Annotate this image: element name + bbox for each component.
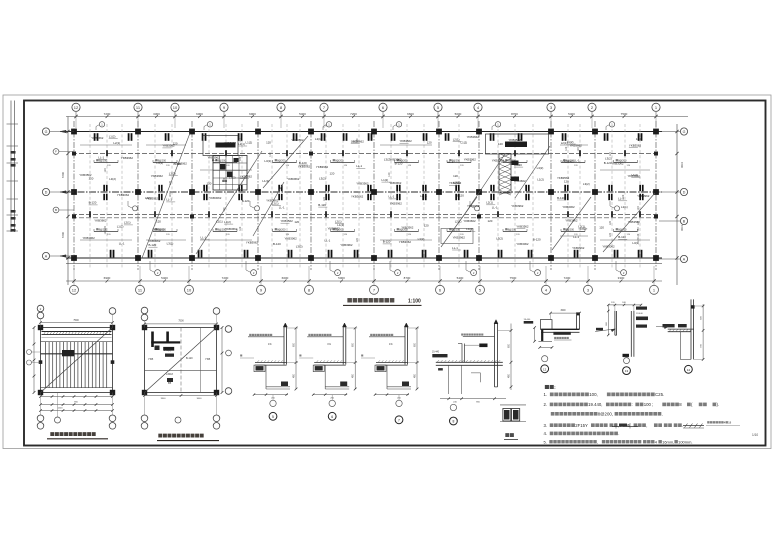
svg-text:L3(2): L3(2)	[454, 181, 461, 185]
svg-text:100mm.: 100mm.	[678, 439, 692, 444]
svg-text:L1(2): L1(2)	[461, 141, 468, 145]
svg-text:7200: 7200	[680, 225, 684, 232]
svg-text:YKB3062: YKB3062	[611, 162, 624, 166]
svg-text:L2(1): L2(1)	[578, 225, 585, 229]
svg-text:6900: 6900	[104, 276, 111, 280]
svg-text:B-120: B-120	[383, 240, 391, 244]
svg-text:YKB3962: YKB3962	[246, 241, 259, 245]
svg-text:19.440,: 19.440,	[588, 402, 602, 407]
svg-text:120: 120	[169, 193, 172, 198]
svg-text:120: 120	[622, 194, 625, 199]
svg-text:YKB3062: YKB3062	[492, 158, 505, 162]
svg-text:.: .	[618, 431, 619, 436]
svg-text:L2(1): L2(1)	[561, 141, 568, 145]
svg-text:120: 120	[294, 220, 299, 224]
svg-text:8@200: 8@200	[277, 158, 286, 162]
svg-text:YKB3962: YKB3962	[146, 197, 159, 201]
svg-text:5400: 5400	[568, 112, 575, 116]
svg-text:L2(1): L2(1)	[335, 219, 342, 223]
svg-text:120: 120	[207, 181, 212, 185]
svg-text:L3(2): L3(2)	[296, 245, 303, 249]
svg-text:L1(2): L1(2)	[537, 177, 544, 181]
svg-text:B-120: B-120	[149, 243, 157, 247]
svg-text:8@200: 8@200	[277, 227, 286, 231]
svg-text:B-120: B-120	[273, 242, 281, 246]
svg-text:L1(2): L1(2)	[224, 220, 231, 224]
svg-text:L3(2): L3(2)	[167, 242, 174, 246]
svg-text:YKB3062: YKB3062	[209, 196, 222, 200]
svg-text:120: 120	[356, 138, 359, 143]
svg-text:G: G	[683, 130, 686, 134]
svg-text:B-120: B-120	[242, 199, 250, 203]
svg-text:YKB3962: YKB3962	[266, 199, 279, 203]
svg-text:L1(2): L1(2)	[117, 225, 124, 229]
svg-text:7200: 7200	[61, 171, 65, 178]
svg-text:C25.: C25.	[655, 392, 664, 397]
svg-text:8@200: 8@200	[335, 158, 344, 162]
svg-text:3300: 3300	[153, 112, 160, 116]
svg-text:120: 120	[169, 180, 172, 185]
svg-text:120: 120	[269, 152, 272, 157]
svg-text:120: 120	[609, 220, 612, 225]
svg-text:7500: 7500	[73, 319, 79, 322]
svg-text:LL-1: LL-1	[98, 155, 104, 159]
svg-text:YKB3662: YKB3662	[389, 181, 402, 185]
svg-text:12: 12	[543, 367, 547, 371]
svg-text:8@200,: 8@200,	[598, 412, 613, 417]
svg-text:120: 120	[637, 233, 640, 238]
svg-text:YKB3662: YKB3662	[467, 135, 480, 139]
svg-text:120: 120	[453, 174, 458, 178]
svg-text:L3(2): L3(2)	[319, 176, 326, 180]
svg-text:YKB: YKB	[205, 357, 210, 361]
svg-text:YKB3962: YKB3962	[572, 246, 585, 250]
svg-text:YKB3562: YKB3562	[291, 138, 304, 142]
svg-text:YKB3562: YKB3562	[509, 138, 522, 142]
svg-text:120: 120	[424, 223, 429, 227]
svg-text:L2(1): L2(1)	[453, 137, 460, 141]
svg-text:L3(2): L3(2)	[418, 237, 425, 241]
svg-text:120: 120	[637, 220, 640, 225]
svg-text:8700: 8700	[404, 276, 411, 280]
svg-text:7200: 7200	[564, 276, 571, 280]
svg-text:100 ;: 100 ;	[644, 402, 654, 407]
svg-text:5400: 5400	[161, 276, 168, 280]
svg-text:2F15Y: 2F15Y	[575, 423, 588, 428]
svg-text:YKB3962: YKB3962	[562, 159, 575, 163]
svg-text:B-120: B-120	[186, 357, 193, 360]
svg-text:L3(2): L3(2)	[264, 159, 271, 163]
svg-text:L2(1): L2(1)	[124, 221, 131, 225]
svg-text:LL-1: LL-1	[201, 236, 207, 240]
svg-text:YKB3662: YKB3662	[628, 174, 641, 178]
svg-text:6900: 6900	[249, 112, 256, 116]
svg-text:L2(1): L2(1)	[455, 219, 462, 223]
svg-text:D: D	[683, 190, 686, 194]
svg-text:B-120: B-120	[514, 163, 522, 167]
svg-text:120: 120	[636, 137, 641, 141]
svg-text:10: 10	[187, 287, 192, 292]
svg-text:YKB3562: YKB3562	[400, 139, 413, 143]
svg-text:3.: 3.	[544, 423, 548, 428]
svg-text:YKB3962: YKB3962	[121, 156, 134, 160]
svg-text:14: 14	[687, 368, 691, 372]
svg-text:L3018: L3018	[166, 373, 174, 376]
svg-text:L1(2): L1(2)	[262, 179, 269, 183]
svg-text:4.: 4.	[544, 431, 548, 436]
svg-text:L2(1): L2(1)	[113, 141, 120, 145]
svg-text:B-120: B-120	[618, 235, 626, 239]
svg-text:120: 120	[609, 152, 612, 157]
svg-text:YKB3662: YKB3662	[225, 227, 238, 231]
svg-text:120: 120	[104, 168, 107, 173]
svg-text:L3(2): L3(2)	[109, 177, 116, 181]
svg-text:10: 10	[173, 105, 178, 110]
svg-text:18: 18	[728, 421, 732, 425]
svg-text:19.440: 19.440	[524, 319, 531, 321]
svg-text:YKB3062: YKB3062	[399, 240, 412, 244]
svg-text:12: 12	[72, 287, 77, 292]
svg-text:YKB3562: YKB3562	[516, 224, 529, 228]
svg-text:6000: 6000	[196, 112, 203, 116]
svg-text:1200: 1200	[58, 408, 64, 410]
svg-text:3000: 3000	[560, 310, 566, 312]
svg-text:B: B	[55, 208, 57, 212]
svg-text:6600: 6600	[282, 276, 289, 280]
svg-text:120: 120	[266, 140, 271, 144]
svg-text:8: 8	[452, 420, 454, 424]
svg-text:G: G	[45, 130, 48, 134]
svg-text:L1(2): L1(2)	[169, 172, 176, 176]
svg-text:L3(2): L3(2)	[537, 166, 544, 170]
svg-text:1.: 1.	[544, 392, 548, 397]
svg-text:B-120: B-120	[318, 203, 326, 207]
svg-text:5.: 5.	[544, 439, 547, 444]
svg-text:L3(2): L3(2)	[496, 236, 503, 240]
svg-text:5400: 5400	[457, 276, 464, 280]
svg-text:YKB3662: YKB3662	[565, 219, 578, 223]
svg-text:7500: 7500	[178, 320, 184, 323]
svg-text:120: 120	[239, 138, 242, 143]
svg-text:LL-1: LL-1	[356, 164, 362, 168]
svg-text:8700: 8700	[511, 112, 518, 116]
svg-text:120: 120	[388, 172, 391, 177]
svg-text:YKB3062: YKB3062	[148, 239, 161, 243]
svg-text:YKB3662: YKB3662	[287, 177, 300, 181]
svg-text:1:100: 1:100	[408, 299, 421, 305]
svg-text:,: ,	[646, 423, 647, 428]
svg-text:L1(2): L1(2)	[382, 178, 389, 182]
svg-text:YKB3662: YKB3662	[151, 174, 164, 178]
svg-text:YKB3662: YKB3662	[463, 219, 476, 223]
svg-text:YKB3662: YKB3662	[570, 143, 583, 147]
svg-text:YKB3962: YKB3962	[464, 158, 477, 162]
svg-text:YKB3562: YKB3562	[629, 143, 642, 147]
svg-text:3300: 3300	[618, 276, 625, 280]
svg-text:5: 5	[272, 415, 274, 419]
svg-text:L1(2): L1(2)	[246, 140, 253, 144]
svg-text:5400: 5400	[299, 112, 306, 116]
svg-text:7200: 7200	[104, 112, 111, 116]
svg-text:YKB3662: YKB3662	[91, 136, 104, 140]
svg-text:YKB3962: YKB3962	[453, 236, 466, 240]
svg-text:120: 120	[239, 156, 242, 161]
svg-text:7: 7	[398, 418, 400, 422]
svg-text:7500: 7500	[510, 276, 517, 280]
svg-text:YKB3962: YKB3962	[511, 204, 524, 208]
svg-text:YKB3562: YKB3562	[152, 227, 165, 231]
svg-text:120: 120	[104, 225, 107, 230]
svg-text:120: 120	[223, 177, 226, 182]
svg-text:L3(2): L3(2)	[229, 175, 236, 179]
svg-text:YKB3062: YKB3062	[389, 157, 402, 161]
svg-text:L2(1): L2(1)	[216, 219, 223, 223]
svg-text:B-120: B-120	[557, 196, 565, 200]
svg-text:120: 120	[323, 197, 326, 202]
svg-text:120: 120	[637, 227, 640, 232]
svg-text:YKB3962: YKB3962	[637, 194, 650, 198]
svg-text:LL-1: LL-1	[574, 158, 580, 162]
svg-text:B-120: B-120	[533, 238, 541, 242]
svg-text:YKB3562: YKB3562	[281, 219, 294, 223]
svg-text:L2(1): L2(1)	[420, 194, 427, 198]
svg-text:LL-1: LL-1	[212, 158, 218, 162]
svg-text:LL-1: LL-1	[573, 235, 579, 239]
svg-text:16mm,: 16mm,	[662, 439, 674, 444]
svg-text:LL-1: LL-1	[279, 205, 285, 209]
svg-text:L2(1): L2(1)	[486, 201, 493, 205]
svg-text:120: 120	[156, 219, 161, 223]
svg-text:YKB3062: YKB3062	[351, 195, 364, 199]
svg-text:L1(2): L1(2)	[109, 134, 116, 138]
svg-text:6600: 6600	[407, 112, 414, 116]
svg-text:19.440: 19.440	[432, 352, 440, 354]
svg-text:LL-1: LL-1	[452, 246, 458, 250]
svg-text:LL-1: LL-1	[119, 242, 125, 246]
svg-text:YKB3662: YKB3662	[94, 219, 107, 223]
svg-text:YKB: YKB	[148, 357, 153, 361]
svg-text:7500: 7500	[621, 112, 628, 116]
svg-text:L1(2): L1(2)	[466, 227, 473, 231]
svg-text:YKB3662: YKB3662	[513, 179, 526, 183]
svg-text:YKB3062: YKB3062	[602, 245, 615, 249]
svg-text:5000: 5000	[338, 276, 345, 280]
svg-text:L-1(2): L-1(2)	[164, 349, 171, 352]
svg-text:YKB3562: YKB3562	[557, 176, 570, 180]
svg-text:YKB3962: YKB3962	[390, 202, 403, 206]
svg-text:12: 12	[74, 105, 79, 110]
svg-text:120: 120	[577, 147, 580, 152]
svg-text:YKB3062: YKB3062	[298, 165, 311, 169]
svg-text:8@200: 8@200	[508, 227, 517, 231]
svg-text:LL-1: LL-1	[492, 206, 498, 210]
svg-text:120: 120	[488, 219, 493, 223]
svg-text:7200: 7200	[222, 276, 229, 280]
svg-text:).: ).	[717, 402, 720, 407]
svg-text:L3(2): L3(2)	[156, 161, 163, 165]
svg-text:YKB3562: YKB3562	[162, 144, 175, 148]
svg-text:YKB3062: YKB3062	[285, 237, 298, 241]
svg-text:5000: 5000	[455, 112, 462, 116]
svg-text:B-120: B-120	[456, 194, 464, 198]
svg-text:YKB3962: YKB3962	[340, 243, 353, 247]
svg-text:D: D	[45, 190, 48, 194]
svg-text:2.: 2.	[544, 402, 548, 407]
svg-text:YKB3562: YKB3562	[240, 175, 253, 179]
svg-text:120: 120	[239, 226, 242, 231]
svg-text:B-120: B-120	[395, 162, 403, 166]
svg-text:YKB3062: YKB3062	[562, 205, 575, 209]
svg-text:YKB3662: YKB3662	[328, 227, 341, 231]
svg-text:YKB3562: YKB3562	[356, 181, 369, 185]
svg-text:YKB3062: YKB3062	[175, 161, 188, 165]
svg-text:1/10: 1/10	[752, 433, 758, 437]
svg-text:YKB3962: YKB3962	[316, 165, 329, 169]
svg-text:100,: 100,	[589, 392, 598, 397]
svg-text:3600: 3600	[197, 398, 203, 400]
svg-text:L2(1): L2(1)	[621, 205, 628, 209]
svg-text:120: 120	[609, 232, 612, 237]
svg-text:YKB3562: YKB3562	[401, 226, 414, 230]
svg-text:120: 120	[637, 206, 640, 211]
svg-text:120: 120	[356, 238, 359, 243]
svg-text:YKB3562: YKB3562	[79, 173, 92, 177]
svg-text:YKB3062: YKB3062	[117, 193, 130, 197]
svg-text:YKB3062: YKB3062	[516, 242, 529, 246]
svg-text:120: 120	[223, 207, 226, 212]
svg-text:120: 120	[565, 146, 568, 151]
svg-text:.: .	[662, 412, 663, 417]
svg-text:L2(1): L2(1)	[315, 137, 322, 141]
svg-text:,: ,	[597, 439, 598, 444]
svg-text:LL-1: LL-1	[389, 195, 395, 199]
svg-text:B-120: B-120	[89, 201, 97, 205]
svg-text:YKB3662: YKB3662	[224, 141, 237, 145]
svg-text:LL-1: LL-1	[448, 160, 454, 164]
svg-text:7200: 7200	[350, 112, 357, 116]
svg-text:120: 120	[427, 141, 432, 145]
svg-text:L3(2): L3(2)	[583, 182, 590, 186]
svg-text:LL-1: LL-1	[166, 198, 172, 202]
svg-text::: :	[632, 402, 633, 407]
svg-text:13: 13	[625, 369, 629, 373]
svg-text:F: F	[55, 150, 57, 154]
svg-text:7200: 7200	[61, 231, 65, 238]
svg-text:19.440: 19.440	[636, 313, 643, 315]
svg-text:6: 6	[331, 415, 333, 419]
svg-text:LL-1: LL-1	[325, 238, 331, 242]
svg-text:YKB3062: YKB3062	[467, 204, 480, 208]
svg-text:120: 120	[330, 172, 335, 176]
svg-text:3900: 3900	[161, 398, 167, 400]
svg-text:7200: 7200	[680, 162, 684, 169]
svg-text:YKB3962: YKB3962	[83, 236, 96, 240]
svg-text:120: 120	[498, 142, 503, 146]
svg-text:120: 120	[599, 226, 604, 230]
